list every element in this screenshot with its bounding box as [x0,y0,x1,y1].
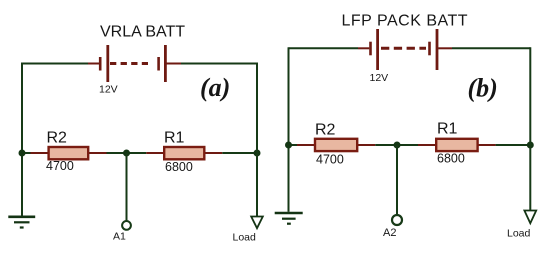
svg-text:12V: 12V [99,83,118,95]
ground (b) [275,213,303,224]
junction (a) left [19,150,26,157]
wire: (b) middle rail seg1 [289,144,298,146]
svg-text:R2: R2 [47,129,68,146]
svg-text:A2: A2 [383,227,396,239]
wire: (a) top rail right segment [181,63,257,65]
svg-text:6800: 6800 [165,160,193,174]
resistor R1 (a) [146,147,222,159]
plate short (neg) left [369,42,372,56]
svg-text:LFP PACK BATT: LFP PACK BATT [342,12,469,29]
svg-text:A1: A1 [113,231,126,243]
junction (b) right [527,142,534,149]
terminal A2 [392,215,402,225]
wire: (b) middle rail seg3 [496,144,531,146]
svg-text:6800: 6800 [437,151,465,165]
resistor R2 (b) [297,139,375,151]
plate short (neg) right [428,42,431,56]
dashed cell link [110,62,148,65]
pin right [438,47,452,49]
junction (b) left [285,142,292,149]
wire: (b) left rail [288,47,290,145]
wire: (b) top rail right segment [452,47,530,49]
wire: (b) A2 stem [396,145,398,215]
wire: (b) middle rail seg2 [375,144,418,146]
plate long (pos) left [106,45,109,82]
resistor R1 (b) [418,139,496,151]
wire: (a) ground stem [21,153,23,216]
wire: (a) middle rail seg3 [222,152,257,154]
wire: (a) left rail [21,63,23,154]
resistor R2 (a) [31,147,107,159]
svg-text:R1: R1 [164,129,185,146]
battery LFP PACK 12V [358,29,452,70]
wire: (a) load stem [256,153,258,216]
wire: (a) right rail [256,63,258,154]
svg-text:R1: R1 [437,120,458,137]
wire: (b) ground stem [288,145,290,212]
wire: (b) load stem [529,145,531,210]
terminal A1 [122,221,131,230]
dashed cell link [381,47,426,50]
load terminal (b) [524,211,536,224]
wire: (a) top rail left segment [22,63,88,65]
battery VRLA 12V [88,45,181,82]
wire: (a) A1 stem [126,153,128,221]
svg-text:4700: 4700 [46,159,74,173]
svg-text:R2: R2 [315,121,336,138]
svg-text:Load: Load [507,228,531,240]
svg-text:(b): (b) [468,74,498,103]
ground (a) [8,217,35,228]
wire: (b) right rail [529,47,531,145]
load terminal (a) [251,217,263,229]
svg-text:VRLA BATT: VRLA BATT [100,24,185,41]
junction (a) middle node A1 [123,150,130,157]
junction (a) right [254,150,261,157]
junction (b) middle node A2 [394,142,401,149]
wire: (b) top rail left segment [289,47,359,49]
svg-text:12V: 12V [370,72,389,84]
plate short (neg) right [157,57,160,71]
wire: (a) middle rail seg1 [22,152,31,154]
pin left [358,47,369,49]
svg-text:4700: 4700 [316,153,344,167]
plate long (pos) left [376,29,379,70]
pin left [88,63,99,65]
plate long (pos) right [164,45,167,82]
wire: (a) middle rail seg2 [107,152,147,154]
plate long (pos) right [436,29,439,70]
plate short (neg) left [99,57,102,71]
svg-text:(a): (a) [200,73,230,102]
svg-text:Load: Load [233,232,257,244]
pin right [167,63,182,65]
